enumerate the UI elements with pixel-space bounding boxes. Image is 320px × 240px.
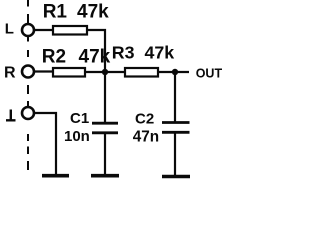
wire C2 to ground <box>174 134 176 177</box>
terminal R <box>22 66 34 78</box>
svg-text:47k: 47k <box>79 46 111 67</box>
resistor R1 <box>53 26 87 35</box>
terminal GND input <box>22 107 34 119</box>
svg-text:R2: R2 <box>42 46 66 67</box>
wire node A to C1 <box>104 72 106 122</box>
terminal L <box>22 24 34 36</box>
svg-text:C2: C2 <box>135 110 154 127</box>
wire C1 to ground <box>104 134 106 175</box>
svg-text:L: L <box>5 21 14 38</box>
wire GND terminal down <box>35 113 56 174</box>
wire L to R1 <box>34 29 52 31</box>
svg-text:47n: 47n <box>133 128 159 145</box>
dashed chassis line <box>27 0 29 170</box>
ground bar 1 <box>42 174 69 178</box>
svg-text:10n: 10n <box>64 128 90 145</box>
capacitor C1 <box>92 123 118 133</box>
wire R1 to node A <box>87 30 105 72</box>
svg-text:R3: R3 <box>112 43 135 63</box>
svg-text:OUT: OUT <box>196 66 223 80</box>
resistor R2 <box>53 68 85 77</box>
node A junction dot <box>102 69 108 75</box>
ground bar 2 <box>91 174 119 178</box>
node B junction dot <box>172 69 178 75</box>
wire R to R2 <box>35 70 52 72</box>
capacitor C2 <box>162 123 190 133</box>
resistor R3 <box>125 68 158 77</box>
svg-text:R: R <box>4 65 16 82</box>
wire R2 to R3 <box>85 71 125 73</box>
wire R3 to OUT <box>158 71 189 73</box>
wire node B to C2 <box>174 72 176 122</box>
svg-text:47k: 47k <box>145 43 175 63</box>
ground bar 3 <box>162 175 190 179</box>
svg-text:47k: 47k <box>77 1 109 22</box>
svg-text:R1: R1 <box>43 1 68 22</box>
chassis symbol <box>6 110 16 121</box>
svg-text:C1: C1 <box>70 110 89 127</box>
